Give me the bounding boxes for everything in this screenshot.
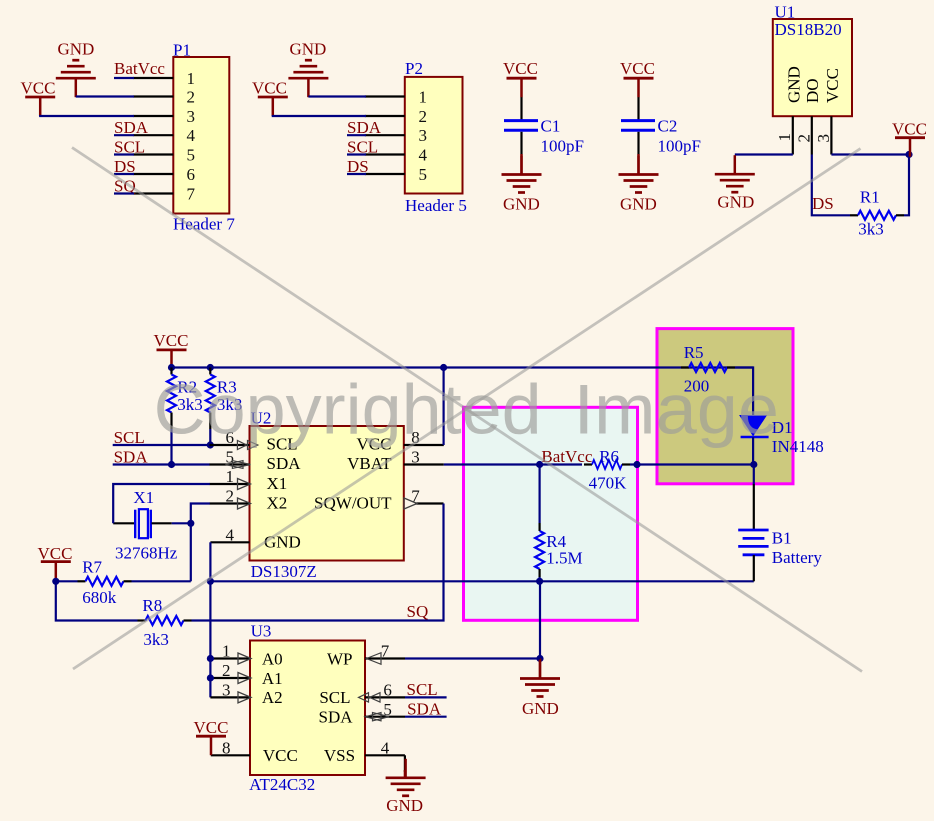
svg-text:Copyrighted: Copyrighted [154, 370, 542, 449]
svg-text:GND: GND [58, 40, 95, 59]
svg-text:100pF: 100pF [658, 137, 701, 156]
svg-text:GND: GND [290, 40, 327, 59]
wire DS stub P2.5 [347, 173, 366, 175]
svg-text:DS1307Z: DS1307Z [251, 562, 317, 581]
ground U3 VSS [386, 759, 426, 815]
U3 pin 3 A2 [210, 681, 251, 703]
U1 pin 3 [814, 116, 833, 154]
svg-text:A2: A2 [262, 688, 283, 707]
wire SCL stub (U3) [405, 696, 447, 698]
wire BatVcc to P1.1 [114, 77, 134, 79]
U3 pin 5 SDA [365, 700, 405, 721]
wire VCC down to R8 [56, 581, 138, 620]
svg-text:8: 8 [222, 739, 231, 758]
battery B1 [738, 528, 822, 567]
svg-text:DO: DO [803, 78, 822, 103]
svg-text:3: 3 [187, 107, 196, 126]
power VCC R7 [38, 544, 73, 581]
watermark diagonal line 2 [73, 149, 861, 670]
wire R6 to D1 node [630, 463, 754, 465]
svg-text:SDA: SDA [267, 454, 302, 473]
wire GND to P2.1 [308, 95, 366, 97]
P2 pins 1-5 [365, 97, 405, 175]
svg-text:Image: Image [574, 370, 780, 449]
power VCC rail (middle) [154, 331, 189, 369]
resistor R1 3k3 [850, 188, 904, 239]
node R6 right junction [633, 461, 640, 468]
wire SDA stub (U3) [405, 716, 447, 718]
wire X1 left to U2.1 [113, 484, 210, 523]
wire SCL stub P1.5 [114, 153, 134, 155]
U3 pin 2 A1 [210, 661, 251, 683]
svg-text:2: 2 [226, 487, 235, 506]
U1 pin 2 [794, 116, 813, 154]
svg-text:3: 3 [419, 126, 428, 145]
wire GND to P1.2 [76, 95, 134, 97]
node R4 / GND rail [536, 578, 543, 585]
svg-text:VCC: VCC [823, 68, 842, 103]
wire VCC to R7 [56, 580, 78, 582]
wire node to battery [753, 465, 755, 485]
svg-text:Header 5: Header 5 [405, 196, 467, 215]
node U1 VCC junction [905, 151, 912, 158]
node VCC/R3 junction [207, 364, 214, 371]
svg-text:WP: WP [327, 650, 353, 669]
svg-text:100pF: 100pF [541, 137, 584, 156]
ground P1 [56, 40, 96, 98]
svg-text:VCC: VCC [154, 331, 189, 350]
wire R5 to D1 [735, 368, 753, 416]
wire VCC to P2.2 [273, 115, 366, 116]
diode D1 IN4148 [740, 416, 824, 456]
svg-text:3: 3 [411, 448, 420, 467]
svg-text:VCC: VCC [263, 746, 298, 765]
wire R2 to SDA [170, 429, 172, 465]
svg-text:U3: U3 [251, 622, 272, 641]
IC U3 AT24C32 [249, 622, 365, 794]
node A0 junction [207, 655, 214, 662]
wire SDA stub P2.3 [347, 134, 366, 136]
svg-text:VSS: VSS [324, 746, 355, 765]
wire VCC to P1.3 [40, 115, 134, 116]
wire SCL to U2.6 [113, 444, 210, 446]
svg-text:VCC: VCC [503, 59, 538, 78]
svg-text:A0: A0 [262, 650, 283, 669]
svg-text:AT24C32: AT24C32 [249, 775, 315, 794]
svg-text:680k: 680k [82, 588, 117, 607]
wire SDA stub P1.4 [114, 134, 134, 136]
svg-text:U1: U1 [775, 2, 796, 21]
svg-text:BatVcc: BatVcc [114, 59, 165, 78]
svg-text:B1: B1 [772, 528, 792, 547]
node crystal junction [187, 520, 194, 527]
wire R1 to VCC node [904, 155, 909, 216]
svg-text:2: 2 [794, 134, 813, 143]
U2 pin 4 GND [210, 526, 249, 545]
svg-text:5: 5 [419, 165, 428, 184]
svg-text:4: 4 [226, 526, 235, 545]
svg-text:2: 2 [419, 107, 428, 126]
svg-text:Header 7: Header 7 [173, 215, 235, 234]
node SCL/R3 junction [207, 441, 214, 448]
svg-text:6: 6 [383, 681, 392, 700]
svg-text:P2: P2 [405, 59, 423, 78]
svg-text:7: 7 [187, 184, 196, 203]
U2 pin 3 VBAT [404, 448, 444, 467]
node GND rail / U2.4 [207, 578, 214, 585]
U2 pin 1 X1 [210, 467, 251, 489]
svg-text:GND: GND [522, 699, 559, 718]
wire U2.4 to GND rail [209, 542, 211, 581]
resistor R4 1.5M [535, 465, 583, 582]
U2 pin 7 SQW/OUT [404, 487, 444, 509]
svg-text:1.5M: 1.5M [546, 548, 582, 567]
resistor R6 470K [540, 447, 630, 492]
wire GND rail [210, 580, 753, 582]
svg-text:Battery: Battery [772, 548, 823, 567]
wire D1 to BatVcc node [752, 437, 754, 465]
resistor R8 3k3 [138, 596, 192, 649]
svg-text:VCC: VCC [892, 120, 927, 139]
U3 pin 8 VCC [211, 739, 250, 758]
svg-text:3k3: 3k3 [858, 219, 884, 238]
svg-text:3k3: 3k3 [143, 630, 169, 649]
wire R7 to crystal node [132, 580, 191, 582]
wire U2.8 to VCC rail [443, 368, 445, 446]
ground P2 [288, 40, 328, 98]
U2 pin 8 VCC [404, 428, 444, 447]
ground mid (U3 WP) [520, 659, 560, 719]
wire U1.1 to ground [735, 153, 793, 155]
highlight box around BatVcc/R4 [464, 407, 638, 620]
svg-text:4: 4 [419, 145, 428, 164]
svg-text:SCL: SCL [319, 688, 350, 707]
power VCC C2 [620, 59, 655, 97]
crystal X1 32768Hz [113, 488, 178, 562]
svg-text:C1: C1 [541, 117, 561, 136]
svg-text:SQ: SQ [407, 602, 429, 621]
ground C1 [502, 154, 542, 214]
wire U1.3 to VCC node [831, 153, 909, 155]
svg-text:1: 1 [187, 69, 196, 88]
node VCC/R2 junction [168, 364, 175, 371]
svg-text:R5: R5 [684, 343, 704, 362]
svg-text:X2: X2 [267, 493, 288, 512]
wire SDA to U2.5 [113, 463, 210, 465]
wire VCC rail to R5 [172, 366, 754, 368]
svg-text:GND: GND [620, 195, 657, 214]
U3 pin 1 A0 [210, 642, 251, 664]
node BatVcc junction [536, 461, 543, 468]
U3 pin 4 VSS [365, 739, 405, 758]
U3 pin 6 SCL [359, 681, 406, 703]
node SDA/R2 junction [168, 461, 175, 468]
svg-text:GND: GND [386, 796, 423, 815]
node WP/GND junction [536, 655, 543, 662]
P1 pins 1-7 [133, 78, 173, 194]
svg-text:7: 7 [381, 642, 390, 661]
svg-text:GND: GND [264, 532, 301, 551]
wire R3 to SCL [209, 429, 211, 445]
svg-text:SCL: SCL [407, 680, 438, 699]
IC U2 DS1307Z [250, 409, 404, 581]
wire DS stub P1.6 [114, 173, 134, 175]
svg-text:SDA: SDA [318, 708, 353, 727]
svg-text:VCC: VCC [38, 544, 73, 563]
power VCC U3 [194, 718, 229, 755]
svg-text:1: 1 [775, 133, 794, 142]
wire crystal node down to R7 [190, 523, 192, 581]
svg-text:2: 2 [187, 87, 196, 106]
svg-text:VCC: VCC [252, 79, 287, 98]
svg-text:2: 2 [222, 661, 231, 680]
power VCC P2 [252, 79, 288, 117]
ground C2 [619, 154, 659, 214]
node VCC/R7/R8 junction [52, 578, 59, 585]
svg-text:470K: 470K [589, 474, 628, 493]
svg-text:GND: GND [503, 195, 540, 214]
power VCC P1 [21, 79, 56, 117]
U3 pin 7 WP [365, 642, 405, 665]
power VCC C1 [503, 59, 538, 97]
svg-text:P1: P1 [173, 41, 191, 60]
svg-text:R6: R6 [599, 447, 619, 466]
header P1 [173, 41, 235, 234]
capacitor C1 [504, 97, 584, 156]
svg-text:C2: C2 [658, 117, 678, 136]
highlight box around R5/D1 [657, 329, 793, 484]
U1 pin 1 [775, 116, 794, 154]
svg-text:DS18B20: DS18B20 [775, 20, 842, 39]
svg-text:32768Hz: 32768Hz [115, 544, 178, 563]
svg-text:1: 1 [226, 467, 235, 486]
wire battery to GND rail [753, 555, 755, 581]
header P2 [405, 59, 467, 215]
svg-text:3: 3 [814, 134, 833, 143]
svg-text:4: 4 [381, 739, 390, 758]
svg-text:1: 1 [222, 642, 231, 661]
wire X1 right junction [172, 522, 191, 524]
svg-text:VCC: VCC [620, 59, 655, 78]
wire VSS to ground [404, 755, 406, 772]
wire SQW/OUT down to SQ [192, 504, 444, 621]
svg-text:3: 3 [222, 681, 231, 700]
resistor R7 680k [78, 557, 132, 607]
node A1 junction [207, 674, 214, 681]
wire crystal node to U2.2 [191, 504, 210, 524]
svg-text:VCC: VCC [21, 79, 56, 98]
wire DS net from U1.2 [812, 155, 850, 216]
svg-text:5: 5 [187, 145, 196, 164]
power VCC U1 [892, 120, 927, 157]
svg-text:1: 1 [419, 87, 428, 106]
node VCC/U2.8 junction [440, 364, 447, 371]
svg-text:6: 6 [187, 165, 196, 184]
svg-text:R1: R1 [860, 188, 880, 207]
svg-text:4: 4 [187, 126, 196, 145]
capacitor C2 [621, 97, 701, 156]
svg-text:GND: GND [717, 192, 754, 211]
svg-text:SDA: SDA [407, 700, 442, 719]
wire SCL stub P2.4 [347, 153, 366, 155]
resistor R5 200 [681, 343, 735, 396]
svg-text:X1: X1 [133, 488, 154, 507]
svg-text:X1: X1 [267, 474, 288, 493]
svg-text:VCC: VCC [194, 718, 229, 737]
svg-text:DS: DS [812, 194, 834, 213]
ground U1 [715, 155, 755, 211]
svg-text:R7: R7 [82, 557, 102, 576]
U2 pin 5 SDA [210, 448, 251, 469]
U2 pin 6 SCL [210, 428, 258, 449]
svg-text:A1: A1 [262, 669, 283, 688]
U2 pin 2 X2 [210, 487, 251, 509]
resistor R2 3k3 [167, 368, 203, 430]
wire WP to GND node [405, 657, 540, 659]
watermark diagonal line 1 [72, 148, 862, 672]
svg-text:GND: GND [784, 66, 803, 103]
IC U1 DS18B20 [773, 2, 852, 116]
wire SQ stub P1.7 [114, 192, 134, 194]
wire GND stem mid [539, 581, 541, 658]
wire GND vertical to U3 [209, 581, 211, 697]
resistor R3 3k3 [206, 368, 243, 430]
svg-text:IN4148: IN4148 [772, 437, 824, 456]
node D1/battery junction [750, 461, 757, 468]
wire VBAT to BatVcc [444, 463, 540, 465]
